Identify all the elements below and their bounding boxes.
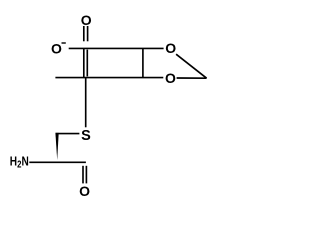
minus charge dash of carboxylate O-	[62, 42, 66, 44]
svg-text:S: S	[81, 128, 91, 144]
aldehyde C=O double bond	[82, 166, 84, 184]
svg-text:O: O	[51, 41, 62, 57]
cyclobutene ring right edge	[142, 48, 144, 77]
dioxole: top O to CH2 apex diagonal	[176, 54, 207, 78]
svg-text:O: O	[165, 70, 176, 86]
bond H2N to alpha C to aldehyde C	[29, 161, 86, 163]
methyl bond + ring bottom edge + bond to dioxole bottom O	[55, 77, 163, 79]
carbonyl O1 (top) C=O double bond	[83, 26, 85, 41]
bond O- to carboxyl C plus ring top edge plus bond to dioxole top O	[69, 47, 164, 49]
bond ring C to S	[85, 78, 87, 128]
bond S to CH2	[56, 133, 80, 135]
dioxole: bottom O to CH2 apex	[177, 77, 207, 79]
cyclobutene ring left edge C=C double bond	[83, 48, 85, 77]
svg-text:O: O	[81, 12, 92, 28]
svg-text:O: O	[165, 40, 176, 56]
svg-text:O: O	[79, 183, 90, 199]
stereo wedge bond alpha C to CH2	[55, 133, 58, 160]
